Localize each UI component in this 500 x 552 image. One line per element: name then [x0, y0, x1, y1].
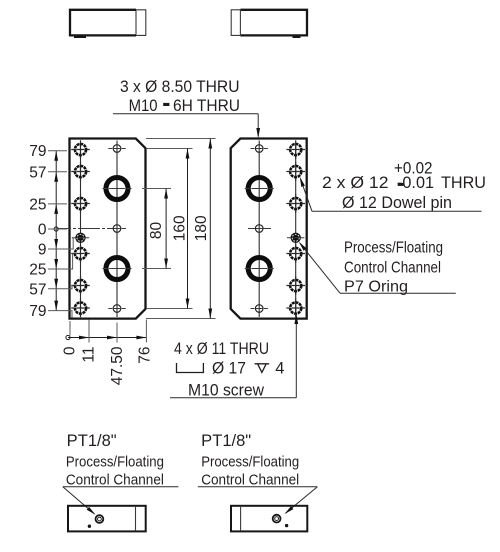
- bottom extension 11: [88, 320, 90, 343]
- plate A counterbore hole 79 top: [71, 140, 90, 159]
- note oring underline: [340, 292, 456, 294]
- bottom left underline: [63, 486, 179, 488]
- plate B big bore bottom: [245, 258, 274, 280]
- note oring leader arrowhead: [299, 242, 307, 251]
- svg-text:2 x Ø 12: 2 x Ø 12: [322, 174, 389, 192]
- plate A horizontal centerline y0: [57, 228, 128, 230]
- left ordinate dimension line: [55, 151, 57, 311]
- plate A left hole column centerline: [80, 143, 82, 316]
- left tick 57 bottom with jog: [48, 286, 72, 289]
- plate B dowel hole 57 top: [286, 162, 305, 181]
- svg-text:Process/Floating: Process/Floating: [66, 454, 164, 471]
- left arrow down 79b: [54, 301, 58, 311]
- dim 160 arrow down: [186, 299, 190, 309]
- bottom left side view inner line: [135, 507, 137, 531]
- svg-text:47.50: 47.50: [109, 346, 126, 385]
- dim 180 extension top: [146, 138, 216, 140]
- svg-text:4 x Ø 11 THRU: 4 x Ø 11 THRU: [174, 340, 269, 358]
- plate A center hole column centerline: [116, 141, 118, 318]
- left arrow down 57b: [54, 279, 58, 289]
- svg-text:6H THRU: 6H THRU: [173, 97, 240, 115]
- left tick 0: [48, 228, 67, 230]
- bottom arrow right 11: [79, 336, 89, 340]
- dim 180 extension bottom: [146, 318, 216, 320]
- svg-text:160: 160: [171, 215, 188, 241]
- svg-text:Ø 12 Dowel pin: Ø 12 Dowel pin: [342, 194, 452, 212]
- svg-text:180: 180: [193, 215, 210, 241]
- bottom extension 47.50: [116, 323, 118, 343]
- left arrow down 25b: [54, 259, 58, 269]
- svg-text:57: 57: [29, 281, 46, 298]
- dim 180 line: [209, 139, 211, 319]
- dim 160 line: [187, 149, 189, 309]
- note M10 leader arrowhead: [256, 128, 260, 138]
- bottom ordinate dimension line: [68, 337, 146, 339]
- note dowel underline: [312, 210, 482, 212]
- dim 160 extension bottom: [146, 308, 193, 310]
- plate B outline: [231, 139, 307, 319]
- bottom left leader wire: [63, 487, 95, 514]
- dim 80 line: [165, 189, 167, 269]
- bottom left leader arrowhead: [87, 507, 96, 515]
- svg-text:M10: M10: [129, 97, 158, 115]
- plate A counterbore hole 57 bottom: [71, 276, 90, 295]
- svg-text:Process/Floating: Process/Floating: [344, 240, 443, 257]
- svg-text:25: 25: [29, 262, 46, 279]
- dim 80 extension bottom: [142, 268, 171, 270]
- bottom right leader wire: [286, 487, 318, 513]
- svg-text:Process/Floating: Process/Floating: [201, 454, 299, 471]
- bottom right leader arrowhead: [285, 506, 294, 514]
- svg-text:57: 57: [29, 164, 46, 181]
- bottom extension 76: [145, 320, 147, 343]
- bottom right side view outline: [231, 506, 307, 532]
- svg-text:79: 79: [29, 143, 46, 160]
- plate B counterbore hole 79 bottom: [286, 299, 305, 318]
- left arrow up 25t: [54, 204, 58, 214]
- plate B right hole column centerline: [295, 143, 297, 316]
- note oring leader wire: [300, 243, 340, 293]
- bottom right port circle: [273, 515, 281, 523]
- svg-text:Control Channel: Control Channel: [344, 260, 441, 277]
- svg-text:THRU: THRU: [441, 174, 486, 192]
- plate B counterbore hole 57 bottom: [286, 276, 305, 295]
- note M10 underline: [113, 113, 258, 115]
- plate A tapped hole bottom: [108, 305, 125, 313]
- svg-text:Ø 17: Ø 17: [212, 360, 246, 378]
- note dowel leader wire: [301, 179, 312, 211]
- svg-text:0: 0: [38, 222, 47, 239]
- dim 80 arrow down: [164, 259, 168, 269]
- left tick 79 top: [48, 150, 67, 152]
- svg-text:11: 11: [81, 347, 98, 363]
- bottom left small hole: [88, 525, 91, 528]
- bottom left port circle: [96, 515, 104, 523]
- left tick 57 top: [48, 171, 67, 173]
- dim 80 arrow up: [164, 189, 168, 199]
- bottom right underline: [198, 486, 318, 488]
- plate A counterbore hole 57 top: [71, 162, 90, 181]
- plate B horizontal centerline y0: [248, 228, 271, 230]
- svg-text:4: 4: [275, 360, 284, 378]
- left tick 25 top: [48, 203, 67, 205]
- bottom right small hole: [285, 524, 288, 527]
- bottom arrow right 47.50: [107, 336, 117, 340]
- svg-text:M10 screw: M10 screw: [188, 382, 264, 400]
- note M10 leader wire: [257, 114, 259, 137]
- note M10 screw leader wire: [295, 316, 297, 398]
- note dowel leader arrowhead: [300, 177, 305, 187]
- left tick 25 bottom with jog: [48, 254, 73, 270]
- dim 180 arrow down: [208, 309, 212, 319]
- bottom ordinate origin circle: [66, 335, 70, 339]
- left arrow up 79t: [54, 151, 58, 161]
- svg-text:80: 80: [148, 222, 165, 240]
- svg-text:76: 76: [137, 347, 154, 364]
- plate B big bore top: [245, 178, 274, 200]
- left tick 9 bottom with jog: [48, 238, 73, 249]
- svg-text:9: 9: [38, 242, 47, 259]
- plate B counterbore hole 25 bottom: [286, 244, 305, 263]
- bottom left side view outline: [68, 506, 146, 532]
- svg-text:79: 79: [29, 303, 46, 320]
- plate B tapped hole top: [251, 145, 268, 153]
- left arrow down 9b: [54, 239, 58, 249]
- plate B oring port hole 9: [287, 233, 304, 243]
- plate B counterbore hole 79 top: [286, 140, 305, 159]
- svg-text:3 x Ø 8.50 THRU: 3 x Ø 8.50 THRU: [120, 78, 240, 96]
- plate A outline: [70, 139, 146, 319]
- depth symbol: [255, 364, 270, 373]
- note M10 screw leader arrowhead: [294, 314, 298, 324]
- plate A oring port hole 9: [72, 233, 89, 243]
- dim 160 arrow up: [186, 149, 190, 159]
- bottom extension 0 plate edge: [69, 321, 71, 336]
- svg-text:PT1/8": PT1/8": [67, 432, 117, 450]
- plate A tapped hole middle: [108, 225, 125, 233]
- dim 160 extension top: [146, 148, 193, 150]
- dim 80 extension top: [142, 188, 171, 190]
- plate B counterbore hole 25 top: [286, 194, 305, 213]
- plate A counterbore hole 25 top: [71, 194, 90, 213]
- plate B center hole column centerline: [258, 141, 260, 318]
- left arrow up 57t: [54, 172, 58, 182]
- plate A big bore bottom: [103, 258, 132, 280]
- plate B tapped hole bottom: [251, 305, 268, 313]
- svg-text:PT1/8": PT1/8": [201, 432, 251, 450]
- plate B tapped hole middle: [251, 225, 268, 233]
- top side view left: [70, 10, 146, 37]
- left tick 79 bottom with jog: [48, 311, 72, 318]
- top side view right: [231, 10, 307, 37]
- svg-text:25: 25: [29, 196, 46, 213]
- dim 180 arrow up: [208, 139, 212, 149]
- left ordinate origin circle 0: [54, 227, 58, 231]
- plate A tapped hole top: [108, 145, 125, 153]
- bottom arrow right 76: [136, 336, 146, 340]
- note M10 tapped holes dash: [163, 103, 169, 106]
- plate A counterbore hole 25 bottom: [71, 244, 90, 263]
- bottom right side view inner line: [240, 507, 242, 531]
- svg-text:Control Channel: Control Channel: [66, 472, 164, 489]
- counterbore symbol: [177, 363, 204, 373]
- plate A big bore top: [103, 178, 132, 200]
- svg-text:Control Channel: Control Channel: [201, 472, 299, 489]
- note M10 screw underline: [170, 397, 296, 399]
- plate A counterbore hole 79 bottom: [71, 299, 90, 318]
- svg-text:0: 0: [62, 346, 79, 355]
